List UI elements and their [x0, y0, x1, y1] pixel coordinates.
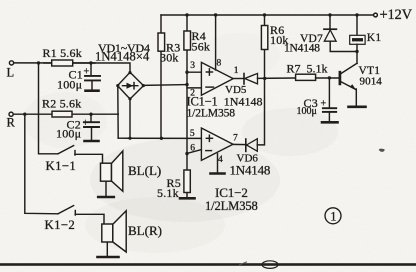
- speaker BL(R): [102, 224, 113, 242]
- svg-text:+: +: [84, 67, 90, 78]
- svg-text:1N4148: 1N4148: [230, 163, 271, 178]
- node pin5-bridge: [128, 137, 131, 140]
- node L-C1: [89, 61, 92, 64]
- svg-text:K1−2: K1−2: [45, 218, 76, 232]
- speaker BL(L): [101, 163, 112, 181]
- diode bridge VD1~VD4: [118, 72, 144, 99]
- node L-K1-1: [37, 61, 40, 64]
- ground BL(R): [98, 256, 119, 259]
- wire pin3 stub: [187, 71, 201, 73]
- terminal R: [9, 112, 13, 116]
- svg-text:+: +: [83, 118, 89, 129]
- node bus-K1: [355, 13, 358, 16]
- stray tick bottom: [239, 262, 247, 265]
- svg-text:1/2LM358: 1/2LM358: [205, 199, 258, 213]
- wire signal line bridge to vertical: [144, 84, 188, 87]
- node bus-VD7: [328, 13, 331, 16]
- ground C1: [86, 89, 99, 92]
- svg-text:R2 5.6k: R2 5.6k: [42, 97, 81, 111]
- svg-text:1: 1: [330, 210, 336, 224]
- ground C2: [85, 140, 99, 143]
- svg-text:5.1k: 5.1k: [157, 186, 179, 200]
- wire R line: [13, 113, 118, 115]
- node VD7-K1: [355, 50, 358, 53]
- resistor R7: [296, 74, 316, 80]
- capacitor C1: [90, 63, 92, 75]
- node bus-R6: [263, 13, 266, 16]
- partial circle bottom: [262, 261, 278, 269]
- svg-text:30k: 30k: [160, 50, 179, 64]
- node wired-or: [263, 77, 266, 80]
- wire bridge bottom to pin5 rail: [129, 99, 131, 138]
- relay K1: [356, 15, 358, 35]
- svg-text:8: 8: [217, 59, 222, 69]
- ground pin4: [211, 172, 225, 175]
- wire pin6 stub: [187, 150, 201, 154]
- wire pin8 drop: [215, 15, 217, 70]
- op-amp IC1-2: [201, 128, 233, 160]
- wire VD5 to R7: [258, 77, 296, 79]
- svg-text:L: L: [7, 66, 15, 80]
- svg-text:1/2LM358: 1/2LM358: [187, 106, 236, 119]
- ground R5: [180, 197, 195, 200]
- resistor R2: [52, 111, 72, 117]
- node C3 tap: [328, 76, 331, 79]
- svg-text:+12V: +12V: [380, 7, 413, 23]
- resistor R4 with vertical rail: [186, 15, 188, 154]
- svg-text:4: 4: [218, 155, 223, 165]
- diode VD6: [245, 139, 247, 151]
- node pin5-R3: [160, 137, 163, 140]
- svg-text:K1: K1: [367, 32, 382, 44]
- svg-text:5: 5: [190, 129, 195, 139]
- svg-text:+: +: [321, 98, 327, 109]
- svg-text:R: R: [7, 116, 16, 130]
- svg-text:9014: 9014: [360, 76, 383, 88]
- wire pin7 output: [233, 143, 246, 145]
- svg-text:56k: 56k: [192, 39, 211, 53]
- svg-text:VD5: VD5: [225, 84, 247, 96]
- resistor R3 with leads: [160, 15, 162, 138]
- diode VD5: [243, 74, 245, 85]
- ground C3: [322, 121, 338, 124]
- capacitor C3: [328, 78, 330, 108]
- node bus-pin8: [214, 13, 217, 16]
- node pin6: [185, 152, 188, 155]
- node bridge right: [142, 84, 145, 87]
- svg-text:6: 6: [190, 144, 195, 154]
- transistor VT1: [339, 72, 342, 84]
- wire L line: [14, 63, 130, 72]
- node signal: [185, 83, 188, 86]
- resistor R1: [44, 62, 95, 64]
- wire bridge left to R line and pin5 rail: [117, 86, 119, 138]
- wire VD6 up to node: [257, 79, 264, 145]
- resistor R5 with ground: [186, 154, 188, 197]
- resistor R6: [264, 15, 266, 78]
- svg-text:IC1−2: IC1−2: [215, 185, 248, 200]
- wire pin4 drop: [217, 154, 219, 172]
- svg-text:BL(R): BL(R): [128, 223, 162, 238]
- svg-text:100μ: 100μ: [297, 106, 317, 117]
- switch K1-1: [39, 63, 59, 154]
- svg-text:BL(L): BL(L): [128, 163, 161, 178]
- svg-text:1N4148×4: 1N4148×4: [95, 50, 150, 64]
- svg-text:100μ: 100μ: [56, 127, 81, 141]
- capacitor C2: [90, 114, 92, 121]
- svg-text:R1 5.6k: R1 5.6k: [43, 46, 82, 60]
- stray mark right: [379, 149, 385, 152]
- wire R7 to base: [316, 77, 339, 79]
- node bus-R4: [185, 13, 188, 16]
- node bridge top: [128, 71, 131, 74]
- wire pin5 rail: [118, 137, 201, 139]
- node R-C2: [89, 113, 92, 116]
- op-amp IC1-1: [201, 62, 233, 95]
- svg-text:R7 5.1k: R7 5.1k: [287, 61, 328, 75]
- ground VT1 emitter: [349, 106, 366, 109]
- svg-text:100μ: 100μ: [57, 78, 82, 92]
- ground BL(L): [98, 196, 114, 199]
- svg-text:1: 1: [234, 66, 239, 76]
- terminal +12V: [374, 13, 378, 17]
- svg-text:1N4148: 1N4148: [284, 43, 320, 55]
- svg-text:3: 3: [190, 61, 195, 71]
- wire pin2 stub: [187, 87, 201, 89]
- wire pin1 output: [233, 78, 244, 80]
- node R-K1-2: [23, 113, 26, 116]
- node bridge left: [116, 84, 119, 87]
- svg-text:K1−1: K1−1: [46, 159, 77, 173]
- diode VD7: [329, 15, 331, 29]
- figure number 1: [325, 208, 341, 224]
- terminal L: [9, 61, 13, 65]
- svg-text:7: 7: [233, 134, 238, 144]
- wire +12V top bus: [161, 14, 374, 16]
- node pin3: [185, 71, 188, 74]
- node bridge bottom: [128, 97, 131, 100]
- switch K1-2: [25, 114, 58, 214]
- bottom border line: [0, 263, 416, 266]
